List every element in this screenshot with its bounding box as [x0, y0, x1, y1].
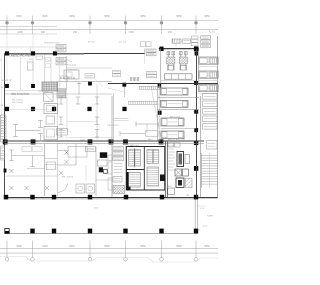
stair flight B: [147, 150, 153, 164]
plant divider 3: [161, 128, 196, 130]
svg-text:450 EQ: 450 EQ: [88, 42, 95, 44]
grid tick top x90: [89, 16, 91, 35]
br dark box: [176, 178, 184, 188]
svg-text:CHW PIPE: CHW PIPE: [67, 70, 78, 72]
core inner boxes upper: [46, 58, 51, 62]
labels x192 y36: [192, 36, 199, 39]
column y141 x111: [109, 139, 114, 144]
column y84 x7: [5, 84, 9, 88]
grid tick bottom x32: [32, 241, 34, 258]
plant west wall double x158: [157, 84, 159, 141]
svg-text:SSL 104.00: SSL 104.00: [12, 102, 24, 104]
column lower row x7: [5, 229, 9, 234]
label cluster x146 y71: [147, 72, 157, 75]
vertical x30 y47-53: [30, 47, 32, 54]
grid bubble bottom x161: [160, 258, 164, 262]
grid stub x33: [32, 34, 34, 51]
stair core left edge: [1, 115, 7, 142]
main wall x196.5 vertical: [196, 49, 198, 198]
small box x62 y76: [60, 76, 68, 82]
grid bubble top x90: [88, 21, 91, 24]
room P tee line: [136, 123, 158, 125]
column y196 x32: [30, 195, 34, 200]
svg-text:1200: 1200: [17, 31, 23, 34]
br panel boxes: [168, 143, 174, 148]
top exterior wall left: [5, 53, 85, 55]
column y196 x126: [124, 195, 128, 200]
column top row x7: [5, 51, 9, 55]
left line y164.5: [45, 164, 58, 166]
svg-text:5850: 5850: [204, 15, 210, 18]
svg-text:5850: 5850: [204, 245, 210, 248]
right wall boxes: [108, 155, 112, 161]
row y111 columns right: [158, 111, 162, 115]
right strip label boxes: [201, 36, 211, 40]
cl wall y150.5: [58, 150, 69, 152]
svg-text:5850: 5850: [140, 245, 146, 248]
grid bubble bottom x90: [88, 258, 92, 262]
top dimension line 1: [0, 19, 218, 21]
column y107 x89: [87, 107, 91, 111]
label box x57 y128: [57, 129, 68, 136]
grid bubble top x32: [31, 21, 34, 24]
room P diag leader 1: [151, 86, 161, 139]
cl vert x86: [85, 165, 87, 180]
lift box 2: [46, 116, 55, 124]
svg-text:2925: 2925: [42, 15, 48, 18]
svg-text:2-09: 2-09: [80, 140, 85, 142]
br lift unit: [177, 152, 184, 167]
center vertical x67 lower: [66, 97, 68, 133]
svg-text:STAIR 2-03: STAIR 2-03: [128, 144, 140, 147]
cl X marks: [64, 150, 68, 154]
stair A lower: [129, 173, 141, 188]
strip unit 2: [199, 71, 219, 78]
bottom dimension line 1: [0, 248, 218, 250]
svg-text:FH: FH: [1, 105, 4, 107]
duct tick band 1: [139, 85, 161, 87]
room P double line y118: [114, 117, 129, 119]
sink boxes: [76, 184, 85, 193]
grid bubble top x161: [160, 21, 163, 24]
column y196 x162: [160, 195, 164, 200]
diffuser tees row 2: [60, 117, 62, 125]
column y141 x33: [31, 139, 36, 144]
room P label box: [146, 131, 159, 136]
column y141 x161: [159, 139, 164, 144]
center vertical x66.5: [66, 56, 68, 90]
H cross structure: [16, 130, 41, 132]
interior wall y83.5: [108, 83, 218, 85]
column lower row x54: [52, 229, 56, 234]
column y107 x33: [31, 107, 35, 111]
column y196 x196: [194, 195, 198, 200]
grid tick top x7: [6, 16, 8, 35]
property line x1.5: [1, 57, 3, 140]
left line y176: [5, 175, 58, 177]
svg-text:150: 150: [73, 31, 78, 34]
plant divider 1: [158, 97, 199, 99]
duct tick band above wall: [130, 77, 132, 81]
svg-text:EQ 450: EQ 450: [119, 42, 127, 44]
label cluster x146 y49: [147, 49, 157, 52]
column y196 x90: [88, 195, 92, 200]
svg-text:5850: 5850: [69, 245, 75, 248]
grid bubble bottom x196: [194, 258, 198, 262]
svg-text:7150: 7150: [128, 31, 134, 34]
interior wall y143.6: [5, 143, 205, 145]
label box x85 y73: [85, 74, 95, 79]
fan room right wall: [198, 49, 200, 84]
pump assembly 2: [180, 52, 183, 55]
column y84 x90: [88, 82, 92, 86]
column y107 x124: [122, 107, 126, 111]
plant divider 2: [158, 109, 199, 111]
label cluster x56 y44: [56, 45, 66, 48]
wall jog x145: [144, 49, 146, 54]
pantry black pair: [99, 167, 103, 172]
left strip text rows: [114, 163, 123, 165]
left line y168.5: [27, 168, 45, 170]
pantry label box: [86, 147, 96, 152]
br cluster boxes: [175, 169, 182, 176]
bottom exterior wall: [5, 197, 219, 199]
column y84 x159: [157, 84, 161, 88]
room wall x20.5: [20, 57, 22, 90]
grid tick top x32: [32, 16, 34, 35]
br left text col: [168, 145, 175, 147]
left vertical x33: [32, 56, 34, 85]
column y84 x33: [31, 84, 35, 88]
svg-text:5850: 5850: [176, 15, 182, 18]
pantry boxes: [98, 160, 108, 166]
svg-text:3600: 3600: [16, 15, 22, 18]
svg-text:5850: 5850: [176, 245, 182, 248]
top wall right block: [159, 48, 199, 50]
left X marks: [10, 169, 14, 173]
plant unit 1: [161, 88, 189, 95]
grid tick bottom x125: [125, 241, 127, 258]
column x196 y130: [194, 128, 198, 132]
strip box 2: [203, 101, 218, 107]
br bottom-left box: [168, 188, 175, 195]
labels above wall x174: [172, 39, 181, 43]
column lower row x32: [30, 229, 34, 234]
core wall x51 upper: [50, 54, 52, 82]
extra vertical x59.5: [59, 56, 61, 90]
grid tick bottom x90: [89, 241, 91, 258]
lift box 1: [44, 104, 58, 114]
column lower row x125: [123, 229, 127, 234]
column y196 x6: [4, 195, 8, 200]
center equip box y70: [64, 70, 79, 79]
grid bubble top x7: [5, 21, 8, 24]
small box on x33: [27, 62, 33, 70]
strip box 1: [203, 94, 218, 100]
top dimension line 3 left: [0, 25, 57, 27]
stair flight A: [129, 150, 135, 167]
column top row x55: [53, 51, 57, 55]
svg-text:5850: 5850: [140, 15, 146, 18]
black L wall: [126, 172, 130, 190]
grid bubble bottom x7: [5, 258, 9, 262]
column y84 x196: [194, 81, 198, 85]
label boxes x113 y70: [113, 70, 121, 73]
column top right x196: [194, 46, 199, 51]
svg-text:A-201: A-201: [209, 31, 216, 34]
plant unit 3: [161, 118, 184, 126]
label boxes x140 y42: [141, 42, 146, 47]
top dimension line 2: [0, 29, 218, 31]
room P diag leader 2: [108, 88, 126, 93]
grid tick bottom x161: [161, 241, 163, 258]
strip unit 3: [199, 85, 219, 92]
fan room floor line: [161, 80, 196, 82]
svg-text:AHU PLANT 2-11: AHU PLANT 2-11: [168, 138, 186, 141]
left top boxes: [22, 147, 32, 152]
stair core mid wall vertical: [143, 147, 145, 191]
center line y137.8: [65, 137, 112, 139]
core box 2: [44, 93, 54, 102]
grid tick bottom x196: [195, 241, 197, 258]
column lower row x196: [194, 229, 198, 234]
grid bubble bottom x125: [124, 258, 128, 262]
svg-text:RAMP UP: RAMP UP: [2, 79, 12, 82]
stair core mid wall horizontal: [126, 169, 144, 171]
center line y121.5: [67, 121, 97, 123]
column y196 x54: [52, 195, 56, 200]
strip box 5: [203, 124, 218, 130]
shaft wall x113.5: [113, 93, 115, 140]
riser x79: [78, 82, 80, 94]
stair flight A divider: [134, 148, 136, 168]
wall stub x144.5 below: [144, 54, 146, 65]
column top right x161: [159, 47, 163, 51]
fan room left wall: [160, 49, 162, 84]
right exterior wall: [217, 36, 219, 198]
lift box 3: [44, 127, 58, 140]
label cluster x56 y57: [56, 58, 66, 61]
column y107 x54: [52, 107, 56, 111]
center line y68: [67, 67, 113, 69]
boundary squiggle line: [0, 257, 218, 263]
grid tick top x161: [161, 16, 163, 35]
grid bubble top x125: [124, 21, 127, 24]
column y84 x124: [122, 83, 126, 87]
duct tick band 2: [128, 100, 158, 102]
grid tick top x196: [195, 16, 197, 35]
corridor beam y81.5: [57, 81, 112, 83]
main wall x166 lower: [165, 141, 167, 198]
grid tick top x125: [125, 16, 127, 35]
svg-text:450: 450: [168, 31, 173, 34]
leader to terrace: [197, 205, 207, 207]
svg-text:FFL 104.15: FFL 104.15: [108, 125, 120, 127]
br side box: [185, 155, 190, 164]
fan room bench: [165, 74, 193, 79]
column y141 x5: [3, 139, 8, 144]
diffuser tees row 3: [60, 130, 62, 138]
interior wall y141: [5, 140, 205, 142]
column x196 y53: [195, 52, 198, 56]
svg-text:PRE-FUNCTION: PRE-FUNCTION: [11, 93, 29, 96]
bottom dimension line 2: [0, 252, 218, 254]
center vertical x97 lower: [96, 84, 98, 140]
core wall x44.5 lower: [44, 144, 46, 196]
svg-text:5850: 5850: [104, 15, 110, 18]
svg-text:5850: 5850: [104, 245, 110, 248]
corridor hatch box x57: [57, 89, 66, 98]
black box right: [160, 175, 165, 182]
cl door arc: [58, 184, 68, 193]
stair core outer wall: [126, 147, 165, 191]
pump assembly 1: [167, 52, 170, 55]
left strip hatch box: [113, 186, 125, 194]
pantry black equip: [100, 152, 107, 158]
column lower row x161: [159, 229, 163, 234]
left exterior wall: [4, 54, 6, 199]
corridor line y90.5: [5, 90, 57, 92]
cl room top box: [68, 147, 87, 158]
strip unit 1: [199, 57, 219, 64]
grid bubble top x196: [194, 21, 197, 24]
svg-text:PLANTER 900W: PLANTER 900W: [44, 42, 60, 45]
kitchen label boxes col: [113, 147, 124, 151]
ladder side rails: [201, 153, 203, 188]
svg-text:FFL 104.60: FFL 104.60: [62, 177, 74, 179]
stair B lower: [147, 167, 159, 186]
top dimension line 4 left: [0, 33, 57, 35]
grid faint x7 down: [6, 56, 8, 85]
pantry divider y180: [96, 179, 112, 181]
left tee x32: [32, 156, 34, 167]
svg-text:2925: 2925: [42, 245, 48, 248]
grid tick bottom x7: [6, 241, 8, 258]
core hatch block: [42, 82, 58, 91]
strip box 4: [203, 116, 218, 122]
left rooms line y155.5: [12, 155, 45, 157]
leader diag x95: [95, 78, 104, 87]
grid stub x7: [6, 34, 8, 51]
corridor line y94: [5, 93, 112, 95]
cl wall y165: [58, 164, 77, 166]
ladder label box: [207, 141, 218, 150]
leader from cluster: [66, 59, 72, 62]
svg-text:AHU: AHU: [148, 138, 153, 141]
column y107 x7: [5, 107, 9, 111]
left tee x11: [11, 150, 13, 161]
core wall x44.5 upper: [44, 54, 46, 82]
column y141 x125: [123, 139, 128, 144]
cl vert x76: [75, 144, 77, 165]
label small x36 y56: [36, 56, 43, 59]
plant unit 4: [161, 131, 184, 139]
faint row line y109.5: [9, 108, 52, 110]
riser line x124: [123, 87, 125, 97]
column top row x33: [31, 51, 35, 55]
secondary wall x200.5: [200, 96, 202, 197]
ramp ladder lines: [202, 155, 218, 157]
column y141 x90: [88, 139, 93, 144]
svg-text:RAMP: RAMP: [207, 215, 214, 218]
plant unit 2: [161, 100, 189, 107]
room P lower line: [120, 133, 145, 135]
bottom wall second line: [5, 198, 197, 200]
top exterior wall mid: [84, 53, 145, 55]
strip box 3: [203, 109, 218, 115]
svg-text:ELEC RM 2-01: ELEC RM 2-01: [60, 78, 76, 80]
column left wall y169: [4, 169, 7, 173]
column x196 y143: [194, 141, 198, 146]
left strip label y178: [113, 177, 122, 183]
svg-text:900: 900: [41, 31, 46, 34]
stair core lower: [1, 146, 5, 160]
cl vert x57.5: [57, 144, 59, 196]
grid bubble bottom x32: [31, 258, 35, 262]
svg-text:3600: 3600: [16, 245, 22, 248]
svg-text:5850: 5850: [69, 15, 75, 18]
colonnade beam line: [5, 232, 198, 234]
column x196 y168: [194, 166, 198, 171]
svg-text:FCU-2-01: FCU-2-01: [67, 65, 77, 67]
diffuser tees row 1: [60, 97, 62, 104]
svg-text:102.9: 102.9: [202, 226, 208, 228]
left line y158.5: [45, 158, 58, 160]
top offset line y47: [0, 46, 57, 48]
colonnade right wall: [195, 198, 197, 234]
left box x46 y162: [47, 162, 56, 170]
kitchen west wall x112: [111, 96, 113, 197]
center vertical x57: [56, 92, 58, 140]
br hatch box: [186, 179, 193, 188]
column lower row x90: [88, 229, 92, 234]
pantry wall x96: [95, 147, 97, 196]
